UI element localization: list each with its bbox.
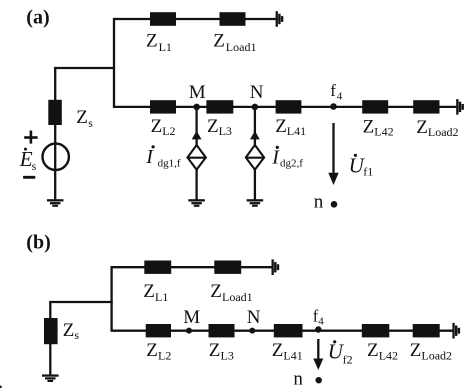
svg-text:Z: Z [143,281,155,302]
svg-text:L42: L42 [374,125,393,139]
svg-text:Load1: Load1 [226,40,257,54]
svg-text:N: N [247,307,261,328]
svg-text:Z: Z [410,340,422,361]
svg-text:L1: L1 [155,290,168,304]
svg-text:M: M [183,307,200,328]
svg-text:Z: Z [151,116,163,137]
svg-text:f: f [330,81,336,100]
svg-text:L41: L41 [283,349,302,363]
svg-text:dg2,f: dg2,f [280,157,303,169]
svg-text:Z: Z [63,320,75,341]
svg-text:Z: Z [272,340,284,361]
svg-text:n: n [293,369,303,389]
svg-text:L3: L3 [219,124,232,138]
svg-text:(b): (b) [26,232,50,254]
svg-text:f2: f2 [343,353,353,367]
svg-text:L1: L1 [159,40,172,54]
svg-text:L41: L41 [287,124,306,138]
svg-text:Load2: Load2 [421,349,452,363]
svg-text:Load1: Load1 [222,290,253,304]
svg-text:Load2: Load2 [428,125,459,139]
svg-text:N: N [250,82,264,103]
svg-text:(a): (a) [26,6,49,28]
svg-text:Z: Z [275,116,287,137]
svg-text:s: s [74,328,79,342]
svg-text:Z: Z [210,281,222,302]
svg-text:Z: Z [209,340,221,361]
svg-text:Z: Z [367,340,379,361]
svg-text:4: 4 [337,90,343,102]
svg-text:Z: Z [146,31,158,52]
svg-text:Z: Z [213,31,225,52]
svg-text:s: s [32,159,37,173]
svg-text:Z: Z [76,107,88,128]
svg-text:L3: L3 [221,349,234,363]
svg-text:I: I [271,146,280,168]
svg-text:Z: Z [146,340,158,361]
svg-text:Z: Z [207,116,219,137]
svg-text:Z: Z [416,117,428,138]
svg-text:I: I [145,146,154,168]
svg-text:M: M [189,82,206,103]
svg-text:L2: L2 [162,124,175,138]
svg-text:Z: Z [363,116,375,137]
svg-text:L42: L42 [379,349,398,363]
svg-text:f1: f1 [363,165,373,179]
svg-text:L2: L2 [158,349,171,363]
svg-text:dg1,f: dg1,f [158,157,181,169]
svg-text:s: s [88,116,93,130]
svg-text:4: 4 [318,316,324,328]
svg-text:n: n [314,192,324,213]
